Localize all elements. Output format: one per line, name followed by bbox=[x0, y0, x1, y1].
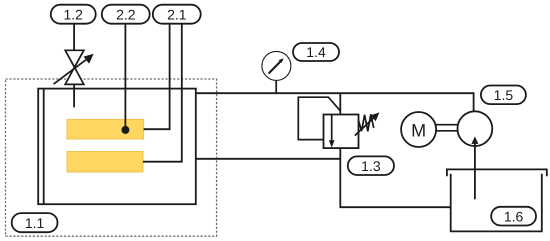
svg-text:2.1: 2.1 bbox=[167, 6, 187, 22]
relief valve internal flow arrow (down) bbox=[329, 115, 335, 148]
label 1.5 bbox=[481, 86, 526, 105]
wire from main line down to relief valve top bbox=[339, 93, 341, 114]
dashed enclosure box (power unit boundary) bbox=[6, 79, 217, 236]
heater element top (yellow) bbox=[67, 119, 144, 139]
gauge stem wire bbox=[275, 80, 277, 93]
label 1.6 bbox=[491, 207, 536, 226]
tank 1.6 body bbox=[451, 174, 542, 232]
wire from label 2.2 to sensor dot bbox=[124, 24, 126, 130]
return line from reservoir to relief valve drain bbox=[196, 158, 340, 160]
main pressure line from reservoir to pump bbox=[196, 93, 474, 111]
throttle valve adjust arrow bbox=[54, 54, 94, 84]
wire B from label 2.1 to bottom heater bbox=[143, 24, 182, 162]
heater element bottom (yellow) bbox=[67, 152, 143, 173]
svg-text:1.3: 1.3 bbox=[361, 158, 381, 174]
svg-text:2.2: 2.2 bbox=[116, 6, 136, 22]
svg-text:1.6: 1.6 bbox=[504, 208, 524, 224]
wire from throttle valve into reservoir bbox=[73, 84, 75, 107]
relief valve 1.3 pilot box bbox=[298, 97, 340, 139]
relief valve spring bbox=[359, 114, 374, 131]
label 1.1 bbox=[12, 213, 58, 232]
relief valve adjust arrow bbox=[355, 112, 380, 135]
pump suction line with up arrow bbox=[471, 136, 478, 199]
drain line from relief valve to tank bbox=[340, 148, 450, 207]
svg-text:1.2: 1.2 bbox=[63, 6, 83, 22]
pressure gauge 1.4 bbox=[262, 51, 291, 80]
pump 1.5 bbox=[458, 111, 493, 146]
reservoir 1.1 body bbox=[38, 89, 196, 205]
coupling shaft (double line) bbox=[436, 125, 459, 131]
wire from label 1.2 to throttle valve bbox=[73, 24, 75, 51]
electric motor M bbox=[401, 112, 436, 147]
label 1.4 bbox=[293, 43, 339, 61]
svg-text:1.4: 1.4 bbox=[306, 44, 326, 60]
label 1.2 bbox=[51, 5, 96, 24]
tank 1.6 rim bbox=[447, 169, 547, 176]
svg-text:1.5: 1.5 bbox=[494, 87, 514, 103]
label 1.3 bbox=[348, 156, 394, 175]
svg-text:1.1: 1.1 bbox=[25, 215, 45, 231]
sensor dot on top heater bbox=[121, 126, 129, 134]
label 2.1 bbox=[153, 5, 201, 24]
relief valve 1.3 body square bbox=[324, 115, 359, 149]
label 2.2 bbox=[102, 5, 150, 24]
throttle valve 1.2 (bowtie) bbox=[65, 50, 84, 84]
wire A from label 2.1 to top heater bbox=[144, 24, 170, 130]
svg-text:M: M bbox=[411, 120, 426, 140]
